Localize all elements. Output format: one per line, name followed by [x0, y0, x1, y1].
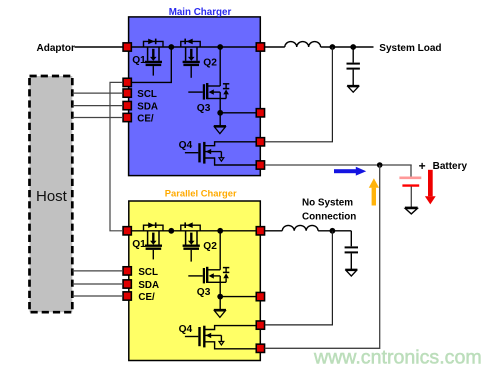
- svg-text:+: +: [419, 159, 426, 173]
- wire Adaptor to main input pin: [75, 46, 124, 48]
- transistor Q4 (parallel charger): [185, 326, 256, 349]
- ground (Q3 source, main): [214, 126, 226, 134]
- wire battery drop: [410, 165, 412, 179]
- pin main adaptor input: [123, 43, 131, 51]
- node Q1-Q2 junction (main): [168, 44, 174, 50]
- pin parallel CE/: [123, 292, 131, 300]
- node Q3 source junction (main): [217, 110, 223, 116]
- wire host to parallel CE/: [73, 295, 124, 297]
- wire inductor to parallel node: [318, 230, 351, 232]
- wire rail to Q3 drain (main): [219, 47, 221, 86]
- svg-text:www.cntronics.com: www.cntronics.com: [313, 347, 482, 369]
- node Q3 source junction (parallel): [217, 294, 223, 300]
- capacitor C2 (parallel output): [345, 231, 358, 269]
- node Q2-Q3 junction (parallel): [217, 228, 223, 234]
- pin parallel Q3 source: [256, 292, 264, 300]
- wire host to main SDA: [73, 105, 124, 107]
- wire main battery output to battery: [265, 164, 412, 166]
- pin parallel input: [123, 227, 131, 235]
- svg-text:SDA: SDA: [137, 102, 158, 113]
- body diode of Q3 (main): [220, 84, 229, 99]
- svg-text:Q4: Q4: [179, 324, 193, 335]
- svg-text:Q2: Q2: [203, 241, 217, 252]
- inductor L2 (parallel): [282, 225, 318, 230]
- ground (C1 (system)): [347, 86, 359, 93]
- wire main output to inductor: [265, 46, 285, 48]
- pin main SDA: [123, 101, 131, 109]
- svg-text:Q3: Q3: [197, 103, 211, 114]
- arrow main charge current (blue): [334, 167, 366, 176]
- ground (Q3 source, parallel): [214, 310, 226, 318]
- node parallel output: [330, 228, 336, 234]
- pin main SCL: [123, 89, 131, 97]
- body diode of Q3 (parallel): [220, 268, 229, 283]
- transistor Q4 (main charger): [185, 142, 256, 165]
- wire adaptor rail (parallel): [123, 230, 260, 232]
- label No System Connection: [302, 197, 356, 222]
- wire main pin2 to Q1-Q2 node: [123, 47, 171, 82]
- wire battery junction down to parallel battery output: [265, 165, 380, 348]
- pin parallel battery output: [256, 344, 264, 352]
- wire host to main CE/: [73, 117, 124, 119]
- pin parallel switch output: [256, 227, 264, 235]
- svg-text:SCL: SCL: [137, 89, 157, 100]
- wire parallel output to inductor: [265, 230, 283, 232]
- svg-text:System Load: System Load: [379, 43, 441, 54]
- wire Q3 junction to ground (parallel): [219, 297, 221, 310]
- pin main Q3 source: [256, 109, 264, 117]
- Main Charger box (blue): [129, 17, 261, 176]
- pin parallel SDA: [123, 280, 131, 288]
- wire main sense pin to parallel input: [110, 82, 123, 230]
- wire Q3 junction to ground (main): [219, 113, 221, 126]
- pin main switch output: [256, 43, 264, 51]
- svg-text:Adaptor: Adaptor: [37, 43, 75, 54]
- wire parallel node back to parallel feedback pin: [265, 231, 333, 325]
- svg-text:Main Charger: Main Charger: [169, 7, 232, 18]
- wire battery to ground: [410, 186, 412, 207]
- svg-text:Parallel Charger: Parallel Charger: [165, 188, 237, 199]
- pin parallel SCL: [123, 267, 131, 275]
- ground (battery): [405, 207, 418, 214]
- wire inductor to system node: [321, 46, 374, 48]
- wire rail to Q3 drain (parallel): [219, 231, 221, 270]
- transistor Q2 (parallel charger): [181, 222, 200, 261]
- node system load tap: [350, 44, 356, 50]
- pin main CE/: [123, 113, 131, 121]
- transistor Q3 (parallel charger): [188, 267, 220, 297]
- wire Q3 junction to right pin (main): [220, 112, 260, 114]
- svg-text:Q4: Q4: [179, 140, 193, 151]
- svg-text:Q1: Q1: [132, 239, 146, 250]
- svg-text:Q1: Q1: [132, 55, 146, 66]
- svg-text:Host: Host: [36, 188, 68, 205]
- wire host to main SCL: [73, 92, 124, 94]
- wire system node back to main feedback pin: [265, 47, 333, 142]
- node system return (main): [330, 44, 336, 50]
- transistor Q3 (main charger): [188, 83, 220, 113]
- wire host to parallel SDA: [73, 283, 124, 285]
- node Q2-Q3 junction (main): [217, 44, 223, 50]
- pin main system sense: [123, 78, 131, 86]
- svg-text:Q2: Q2: [203, 57, 217, 68]
- arrow parallel charge current (orange): [369, 178, 379, 205]
- svg-text:SCL: SCL: [138, 267, 158, 278]
- wire host to parallel SCL: [73, 270, 124, 272]
- svg-text:Battery: Battery: [433, 161, 468, 172]
- ground (C2 (parallel output)): [345, 269, 357, 276]
- Host block: [30, 76, 73, 312]
- svg-text:Q3: Q3: [197, 287, 211, 298]
- svg-text:CE/: CE/: [137, 114, 154, 125]
- Parallel Charger box (yellow): [129, 201, 260, 361]
- svg-text:CE/: CE/: [138, 292, 155, 303]
- svg-text:Connection: Connection: [302, 212, 356, 223]
- arrow battery current (red): [425, 170, 436, 205]
- transistor Q2 (main charger): [181, 39, 200, 78]
- node Q1-Q2 junction (parallel): [168, 228, 174, 234]
- wire Q3 junction to right pin (parallel): [220, 296, 260, 298]
- pin parallel feedback: [256, 321, 264, 329]
- pin main feedback: [256, 138, 264, 146]
- capacitor C1 (system): [347, 47, 360, 85]
- inductor L1 (main): [285, 42, 321, 47]
- svg-text:No System: No System: [302, 197, 353, 208]
- pin main battery output: [256, 161, 264, 169]
- wire adaptor rail (main): [123, 46, 260, 48]
- battery symbol: [399, 178, 421, 186]
- transistor Q1 (parallel charger): [144, 222, 164, 259]
- svg-text:SDA: SDA: [138, 280, 159, 291]
- transistor Q1 (main charger): [144, 39, 164, 76]
- node battery junction: [377, 162, 383, 168]
